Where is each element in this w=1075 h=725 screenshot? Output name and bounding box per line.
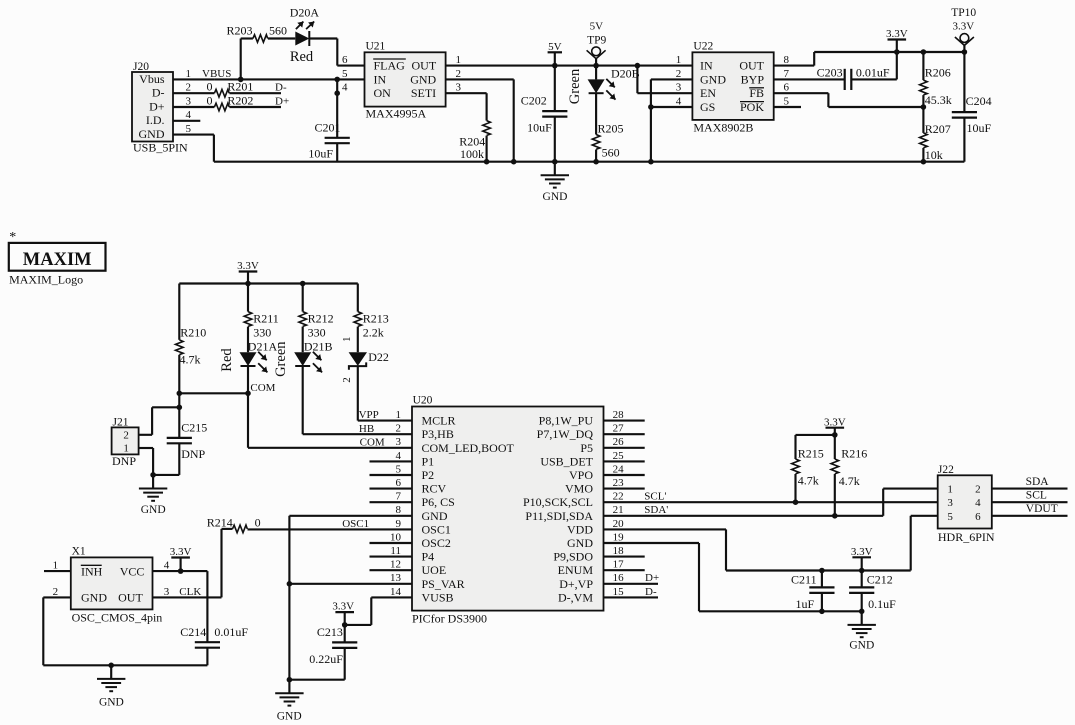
svg-text:28: 28 [613,409,625,421]
svg-text:1: 1 [341,337,353,343]
svg-text:OUT: OUT [412,59,437,73]
svg-text:2: 2 [123,430,129,442]
svg-text:330: 330 [253,326,271,340]
svg-text:Green: Green [273,341,289,377]
svg-text:5: 5 [342,68,348,80]
svg-text:C213: C213 [317,625,343,639]
svg-text:SCL': SCL' [644,491,666,503]
svg-text:8: 8 [396,504,402,516]
svg-text:13: 13 [390,572,402,584]
svg-text:4: 4 [396,450,402,462]
svg-text:GS: GS [700,100,715,114]
svg-text:SETI: SETI [411,86,436,100]
svg-text:330: 330 [308,326,326,340]
svg-text:10: 10 [390,531,402,543]
svg-text:D+,VP: D+,VP [559,577,593,591]
svg-text:P5: P5 [580,441,593,455]
svg-text:J21: J21 [113,417,129,429]
svg-text:TP10: TP10 [951,7,976,19]
svg-text:P11,SDI,SDA: P11,SDI,SDA [525,509,593,523]
svg-text:2: 2 [341,377,353,383]
svg-text:1uF: 1uF [796,597,815,611]
svg-text:CLK: CLK [179,586,201,598]
svg-text:4: 4 [186,109,192,121]
svg-text:2: 2 [975,484,981,496]
svg-text:VPP: VPP [359,409,379,421]
svg-text:R205: R205 [598,122,624,136]
svg-text:5: 5 [947,511,953,523]
svg-text:VDD: VDD [567,522,593,536]
svg-text:560: 560 [269,24,287,38]
svg-text:U21: U21 [366,41,386,53]
svg-text:D21B: D21B [304,340,333,354]
svg-text:3.3V: 3.3V [851,546,873,558]
svg-text:OSC1: OSC1 [422,522,451,536]
svg-text:GND: GND [139,127,165,141]
svg-text:5V: 5V [548,41,562,53]
svg-text:HB: HB [359,423,374,435]
svg-text:6: 6 [396,477,402,489]
svg-text:FLAG: FLAG [374,59,406,73]
svg-text:MCLR: MCLR [422,414,456,428]
svg-text:DNP: DNP [181,447,205,461]
svg-text:GND: GND [81,591,107,605]
svg-text:COM_LED,BOOT: COM_LED,BOOT [422,441,515,455]
svg-text:GND: GND [410,72,436,86]
svg-text:1: 1 [947,484,953,496]
svg-text:2: 2 [186,82,192,94]
svg-text:2: 2 [456,68,462,80]
svg-text:R211: R211 [253,312,279,326]
svg-text:6: 6 [342,54,348,66]
svg-text:7: 7 [784,68,790,80]
svg-text:4.7k: 4.7k [839,474,860,488]
svg-text:3.3V: 3.3V [237,260,259,272]
svg-text:0: 0 [255,516,261,530]
svg-text:3.3V: 3.3V [953,21,975,33]
svg-text:IN: IN [700,59,713,73]
svg-text:1: 1 [676,54,682,66]
svg-text:19: 19 [613,531,625,543]
svg-text:21: 21 [613,504,624,516]
svg-text:TP9: TP9 [587,35,606,47]
svg-text:9: 9 [396,518,402,530]
svg-text:3: 3 [396,436,402,448]
svg-text:GND: GND [567,536,593,550]
svg-text:PS_VAR: PS_VAR [422,577,465,591]
svg-text:D22: D22 [368,350,389,364]
svg-text:P7,1W_DQ: P7,1W_DQ [537,427,594,441]
svg-text:D-,VM: D-,VM [558,590,593,604]
svg-text:16: 16 [613,572,625,584]
svg-text:4: 4 [676,95,682,107]
svg-text:INH: INH [81,564,103,578]
svg-text:P1: P1 [422,454,435,468]
svg-text:D+: D+ [645,572,659,584]
svg-text:C204: C204 [966,94,992,108]
svg-text:27: 27 [613,423,625,435]
svg-text:5: 5 [186,123,192,135]
svg-text:6: 6 [784,82,790,94]
svg-text:Vbus: Vbus [139,72,165,86]
svg-text:22: 22 [613,491,624,503]
svg-text:U20: U20 [413,395,433,407]
svg-text:4: 4 [342,82,348,94]
svg-text:5V: 5V [590,21,604,33]
svg-text:OUT: OUT [739,59,764,73]
svg-text:100k: 100k [460,147,484,161]
svg-text:X1: X1 [72,546,86,558]
svg-text:20: 20 [613,518,625,530]
svg-text:3: 3 [164,586,170,598]
svg-text:EN: EN [700,86,716,100]
svg-text:C214: C214 [180,625,206,639]
svg-text:4: 4 [164,560,170,572]
svg-text:15: 15 [613,586,625,598]
svg-text:GND: GND [543,191,568,203]
svg-text:1: 1 [123,443,129,455]
svg-text:VDUT: VDUT [1026,503,1058,515]
svg-text:0.1uF: 0.1uF [868,597,896,611]
svg-text:R212: R212 [308,312,334,326]
svg-text:R203: R203 [226,24,252,38]
svg-text:560: 560 [602,145,620,159]
svg-text:2: 2 [676,68,682,80]
svg-text:I.D.: I.D. [146,113,165,127]
svg-text:11: 11 [390,545,401,557]
svg-text:P3,HB: P3,HB [422,427,454,441]
svg-text:1: 1 [53,560,59,572]
svg-text:R206: R206 [925,66,951,80]
svg-text:3: 3 [676,82,682,94]
svg-text:C201: C201 [314,120,340,134]
svg-text:2: 2 [396,423,402,435]
svg-text:USB_5PIN: USB_5PIN [133,141,188,155]
svg-text:MAX8902B: MAX8902B [693,120,753,134]
svg-text:DNP: DNP [112,454,136,468]
svg-text:7: 7 [396,491,402,503]
svg-text:3.3V: 3.3V [886,28,908,40]
svg-text:C211: C211 [791,573,817,587]
svg-text:R216: R216 [841,447,867,461]
svg-text:24: 24 [613,463,625,475]
svg-text:SCL: SCL [1026,490,1047,502]
svg-text:D-: D- [645,586,657,598]
svg-text:C215: C215 [181,421,207,435]
svg-text:45.3k: 45.3k [925,93,952,107]
svg-text:10uF: 10uF [967,121,992,135]
svg-text:4.7k: 4.7k [180,353,201,367]
svg-text:OUT: OUT [118,591,143,605]
svg-text:10uF: 10uF [527,121,552,135]
svg-text:4: 4 [975,497,981,509]
svg-text:SDA': SDA' [644,504,668,516]
svg-text:COM: COM [360,436,385,448]
svg-text:P6, CS: P6, CS [422,495,455,509]
svg-text:5: 5 [784,95,790,107]
svg-text:Red: Red [290,49,314,65]
svg-text:IN: IN [374,72,387,86]
svg-text:10k: 10k [925,148,943,162]
svg-text:P2: P2 [422,468,435,482]
svg-text:OSC_CMOS_4pin: OSC_CMOS_4pin [72,611,163,625]
svg-text:D+: D+ [275,95,289,107]
svg-text:C212: C212 [867,573,893,587]
svg-text:5: 5 [396,463,402,475]
svg-text:HDR_6PIN: HDR_6PIN [938,530,995,544]
svg-text:1: 1 [186,68,192,80]
svg-text:VCC: VCC [120,564,145,578]
svg-text:R213: R213 [363,312,389,326]
svg-text:Red: Red [219,348,235,372]
svg-text:ENUM: ENUM [558,563,594,577]
svg-text:OSC2: OSC2 [422,536,451,550]
svg-text:VPO: VPO [569,468,593,482]
svg-text:UOE: UOE [422,563,447,577]
svg-text:18: 18 [613,545,625,557]
svg-text:3: 3 [947,497,953,509]
svg-text:1: 1 [396,409,402,421]
svg-text:3.3V: 3.3V [824,416,846,428]
svg-text:D20A: D20A [290,6,320,20]
svg-text:MAXIM_Logo: MAXIM_Logo [9,272,83,286]
svg-text:P9,SDO: P9,SDO [553,550,593,564]
svg-text:R202: R202 [227,93,253,107]
svg-text:GND: GND [141,504,166,516]
svg-text:R215: R215 [798,447,824,461]
svg-text:0: 0 [207,93,213,107]
svg-text:14: 14 [390,586,402,598]
svg-text:D-: D- [152,86,165,100]
svg-text:GND: GND [277,710,302,722]
svg-text:P8,1W_PU: P8,1W_PU [539,414,594,428]
svg-text:6: 6 [975,511,981,523]
svg-text:12: 12 [390,559,401,571]
svg-text:C203: C203 [817,66,843,80]
svg-text:4.7k: 4.7k [798,473,819,487]
svg-text:GND: GND [422,509,448,523]
svg-text:GND: GND [99,696,124,708]
svg-text:R210: R210 [180,326,206,340]
svg-text:8: 8 [784,54,790,66]
svg-text:VUSB: VUSB [422,590,454,604]
svg-text:17: 17 [613,559,625,571]
svg-text:D-: D- [275,82,287,94]
svg-text:U22: U22 [693,41,713,53]
svg-text:COM: COM [250,382,275,394]
svg-text:0.22uF: 0.22uF [309,652,343,666]
svg-text:PICfor DS3900: PICfor DS3900 [412,612,487,626]
svg-text:USB_DET: USB_DET [540,454,593,468]
svg-text:J22: J22 [938,464,954,476]
svg-text:BYP: BYP [741,72,765,86]
svg-text:D+: D+ [149,99,165,113]
svg-text:0: 0 [207,80,213,94]
svg-text:1: 1 [456,54,462,66]
svg-text:3.3V: 3.3V [170,546,192,558]
svg-text:R214: R214 [207,516,233,530]
svg-text:10uF: 10uF [308,147,333,161]
svg-text:MAXIM: MAXIM [23,250,92,270]
svg-text:3: 3 [456,82,462,94]
svg-text:23: 23 [613,477,625,489]
svg-text:GND: GND [849,639,874,651]
svg-text:26: 26 [613,436,625,448]
svg-text:3.3V: 3.3V [332,601,354,613]
svg-text:SDA: SDA [1026,476,1050,488]
svg-text:P10,SCK,SCL: P10,SCK,SCL [523,495,593,509]
svg-text:2: 2 [53,586,59,598]
svg-text:RCV: RCV [422,482,447,496]
svg-text:C202: C202 [521,94,547,108]
svg-text:D20B: D20B [611,67,640,81]
svg-text:VBUS: VBUS [202,68,231,80]
svg-text:25: 25 [613,450,625,462]
svg-text:0.01uF: 0.01uF [214,625,248,639]
svg-text:ON: ON [374,86,392,100]
svg-text:GND: GND [700,72,726,86]
svg-text:R207: R207 [925,122,951,136]
svg-text:0.01uF: 0.01uF [856,66,890,80]
svg-text:3: 3 [186,95,192,107]
svg-text:MAX4995A: MAX4995A [366,106,427,120]
svg-text:2.2k: 2.2k [363,326,384,340]
svg-text:P4: P4 [422,550,435,564]
svg-text:Green: Green [567,68,583,104]
svg-text:VMO: VMO [565,482,593,496]
